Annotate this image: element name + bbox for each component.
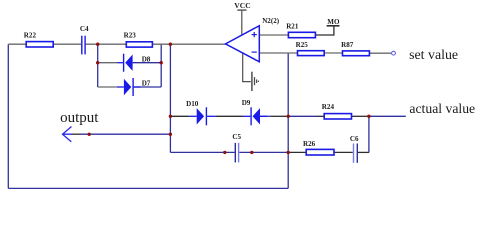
svg-text:R26: R26 bbox=[303, 140, 316, 148]
svg-text:R21: R21 bbox=[286, 23, 299, 31]
svg-text:C5: C5 bbox=[232, 133, 241, 141]
svg-text:N2(2): N2(2) bbox=[262, 17, 280, 25]
svg-text:D8: D8 bbox=[142, 55, 151, 63]
svg-text:R87: R87 bbox=[341, 41, 354, 49]
svg-text:C6: C6 bbox=[350, 135, 359, 143]
svg-text:R24: R24 bbox=[322, 103, 335, 111]
svg-text:R23: R23 bbox=[124, 32, 137, 40]
svg-text:output: output bbox=[60, 110, 99, 126]
svg-text:VCC: VCC bbox=[234, 1, 250, 10]
svg-text:D9: D9 bbox=[242, 99, 251, 107]
svg-text:D7: D7 bbox=[142, 80, 151, 88]
svg-text:actual value: actual value bbox=[409, 101, 475, 116]
svg-text:R25: R25 bbox=[296, 41, 309, 49]
svg-text:C4: C4 bbox=[80, 25, 89, 33]
svg-text:D10: D10 bbox=[186, 100, 199, 108]
svg-text:MO: MO bbox=[327, 18, 340, 26]
svg-text:R22: R22 bbox=[24, 32, 37, 40]
svg-text:set value: set value bbox=[409, 48, 458, 63]
